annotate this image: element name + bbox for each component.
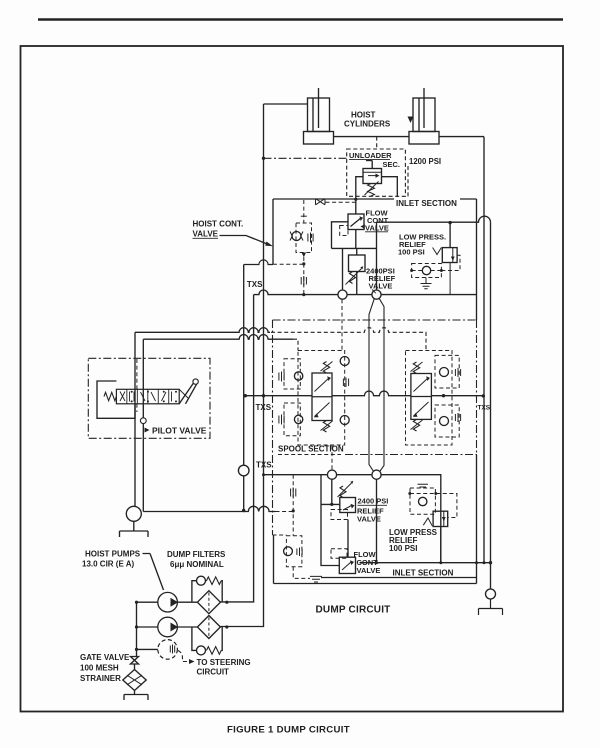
svg-text:100 MESH: 100 MESH — [80, 664, 119, 673]
spool valve 2 body — [411, 374, 432, 420]
spool 2 spring top — [413, 362, 419, 374]
steering takeoff dashed — [178, 651, 189, 662]
spool 1 sub check bottom — [294, 415, 302, 423]
wire right tank bus x490 — [490, 222, 492, 589]
wire to cylinder 1 — [264, 103, 308, 105]
dashed link circle A to spool box — [341, 299, 343, 351]
bypass spring 1 — [207, 577, 222, 585]
check circle A — [338, 290, 347, 299]
dashed link spool box to circle C — [331, 446, 333, 470]
wire work gallery y395 — [244, 395, 312, 397]
retainer on branch — [290, 489, 292, 497]
wire unloader pilot to cylinder line — [376, 137, 378, 149]
wire tank bus x243.7 — [243, 265, 245, 511]
wire cylinder base link — [334, 136, 410, 138]
wire pilot line 1 wavy — [135, 328, 270, 333]
flow valve 1 feed — [355, 199, 357, 214]
pilot valve feedback loop — [97, 381, 135, 418]
check valve dashed box bottom-left — [286, 536, 302, 567]
svg-text:13.0 CIR (E A): 13.0 CIR (E A) — [82, 560, 134, 569]
pilot tank symbol — [120, 521, 149, 537]
label INLET SECTION top — [394, 197, 460, 206]
dump box left edge — [273, 535, 275, 584]
check valve dashed box top-left — [296, 223, 312, 253]
wire pilot drain x143 — [142, 339, 144, 511]
spool 2 check circle top — [440, 368, 449, 377]
svg-text:PILOT VALVE: PILOT VALVE — [152, 426, 207, 436]
svg-text:2400 PSI: 2400 PSI — [358, 497, 389, 506]
spool 1 spring bottom — [323, 421, 329, 433]
svg-text:HOIST CONT.: HOIST CONT. — [193, 220, 244, 229]
wire cylinder 2 to right bus — [439, 136, 484, 138]
filter 2 — [197, 616, 220, 639]
spring retainer CV1 — [307, 234, 309, 242]
svg-text:DUMP FILTERS: DUMP FILTERS — [167, 550, 226, 559]
wire return gallery y474 with circles — [264, 475, 491, 563]
bypass check 2 — [197, 646, 206, 655]
unloader spring — [368, 184, 375, 197]
center line B — [379, 298, 384, 472]
svg-text:INLET SECTION: INLET SECTION — [396, 199, 457, 208]
unloader right loop — [382, 177, 398, 199]
svg-text:1200 PSI: 1200 PSI — [409, 157, 441, 166]
tank symbol branch — [310, 576, 322, 582]
svg-text:100 PSI: 100 PSI — [389, 544, 417, 553]
tank symbol low press bottom — [418, 484, 429, 487]
low press relief bottom dashed box — [410, 488, 435, 514]
spool 1 retainer bars — [342, 379, 344, 387]
svg-text:VALVE: VALVE — [369, 282, 393, 291]
svg-text:STRAINER: STRAINER — [80, 674, 121, 683]
svg-text:GATE VALVE: GATE VALVE — [80, 653, 130, 662]
relief 2 ls box dashed — [331, 510, 348, 520]
inlet section left edge — [272, 199, 274, 265]
check valve CV2 — [284, 547, 293, 556]
svg-text:100 PSI: 100 PSI — [398, 248, 425, 257]
inner gallery left x321 — [321, 475, 339, 566]
svg-text:SEC.: SEC. — [383, 160, 401, 169]
wire relief gallery y248 — [332, 247, 377, 249]
svg-text:TXS: TXS — [256, 461, 272, 470]
leader to pump 1 — [143, 554, 164, 591]
svg-text:HOIST PUMPS: HOIST PUMPS — [85, 550, 141, 559]
wire spool feed drop — [376, 479, 378, 562]
svg-text:TXS: TXS — [478, 405, 491, 412]
svg-text:CIRCUIT: CIRCUIT — [197, 668, 230, 677]
wire pilot supply x135 — [134, 332, 136, 506]
wire valve bottom to y563 — [440, 527, 442, 563]
wire flow valve 2 outlet gallery — [360, 562, 441, 564]
strainer — [134, 664, 136, 670]
unloader valve U1 — [363, 169, 382, 184]
check circle C — [327, 470, 336, 479]
check circle low press bottom — [419, 497, 427, 505]
spool 1 sub check top — [294, 372, 302, 380]
low press check circuit dashed top — [412, 264, 442, 278]
bypass check 1 — [197, 576, 206, 585]
gate valve bowtie — [131, 657, 139, 665]
tank symbol low press top — [421, 278, 432, 289]
inlet section top border — [273, 198, 477, 200]
spring retainer on drain — [300, 277, 302, 285]
strainer tank symbol — [124, 691, 148, 701]
flow valve 1 left loop — [332, 222, 349, 249]
spool 1 check circle bottom — [340, 416, 349, 425]
branch to tank dashed — [293, 567, 310, 579]
spool valve 1 body — [312, 373, 332, 421]
spool 1 sub box bottom — [284, 403, 300, 436]
spring retainer CV2 — [296, 549, 298, 556]
label PILOT VALVE — [145, 428, 150, 433]
pump 1 outlet — [177, 601, 197, 603]
bowtie link dashed — [326, 201, 356, 203]
spool 1 dashed enclosure — [298, 351, 345, 446]
spool section left border — [272, 320, 274, 535]
flow control valve 1 — [348, 214, 364, 230]
svg-text:VALVE: VALVE — [193, 230, 219, 239]
spool 1 check circle top — [340, 357, 349, 366]
spool 2 retainer bottom — [454, 414, 456, 421]
svg-text:HOIST: HOIST — [351, 111, 376, 120]
svg-text:FIGURE 1 DUMP CIRCUIT: FIGURE 1 DUMP CIRCUIT — [227, 725, 350, 736]
right tank symbol — [479, 599, 503, 615]
pilot valve internal arrows — [120, 392, 125, 402]
hoist pump 1 — [158, 592, 178, 612]
wire relief to flow valve 2 — [347, 520, 349, 558]
pump 2 outlet — [177, 626, 197, 628]
spool 2 check circle bottom — [440, 417, 449, 426]
spool section top border — [273, 319, 477, 321]
spool 1 sub retainer top — [278, 373, 280, 381]
top rule — [38, 18, 563, 21]
right tank check circle — [486, 589, 496, 599]
check valve CV1 — [292, 232, 301, 241]
spool 2 check box bottom — [435, 405, 459, 437]
filter 1 — [197, 591, 220, 614]
low press drain dashed loop top — [441, 255, 460, 270]
svg-text:CYLINDERS: CYLINDERS — [344, 120, 391, 129]
low pressure relief valve bottom — [433, 511, 448, 526]
svg-text:INLET SECTION: INLET SECTION — [393, 569, 454, 578]
svg-text:SPOOL SECTION: SPOOL SECTION — [278, 445, 344, 454]
relief valve 2400 psi top — [349, 255, 366, 272]
svg-text:TO STEERING: TO STEERING — [197, 658, 251, 667]
pilot valve lever — [179, 383, 193, 404]
valve assembly right edge — [476, 199, 478, 320]
svg-text:VALVE: VALVE — [357, 515, 381, 524]
dump box bottom border — [274, 583, 477, 585]
relief valve 2400 psi bottom — [340, 498, 356, 513]
wire work gallery y395 mid — [332, 391, 411, 396]
pilot valve dash-dot enclosure — [88, 358, 210, 438]
svg-text:6μμ NOMINAL: 6μμ NOMINAL — [170, 560, 224, 569]
wire gallery drop right — [376, 248, 378, 290]
pilot feed dashed — [136, 359, 138, 389]
low pressure relief valve top — [449, 223, 451, 248]
wire right bus x484 — [483, 137, 485, 563]
inlet2 inner bottom border — [321, 577, 477, 579]
flow control valve 2 — [339, 557, 355, 573]
wire suction gallery y511 — [143, 506, 275, 511]
wire flow valve drop — [355, 230, 357, 249]
flow arrow at cylinder 2 — [408, 117, 414, 124]
svg-text:DUMP CIRCUIT: DUMP CIRCUIT — [316, 605, 391, 616]
wire pump supply bus — [220, 295, 253, 602]
unloader dashed enclosure — [347, 149, 406, 196]
check valve circle on tank bus — [238, 465, 249, 476]
branch arrowhead — [302, 253, 307, 258]
check circle D — [372, 470, 381, 479]
flow 2 ls box dashed — [331, 549, 347, 559]
filter 2 bypass loop — [192, 627, 222, 650]
low press drain loop bottom — [436, 494, 457, 518]
svg-text:TXS: TXS — [247, 280, 263, 289]
wire low press feed y222 — [377, 216, 491, 222]
wire pilot line 2 wavy — [143, 335, 293, 340]
wire gallery drop left — [342, 248, 344, 290]
label INLET SECTION bottom — [391, 567, 457, 576]
wire pilot line 1 dashed — [271, 328, 426, 351]
spool 2 spring bottom — [413, 419, 419, 431]
hoist pump 2 — [158, 617, 178, 637]
unloader left loop — [356, 177, 363, 199]
relief adjust arrow top — [350, 272, 356, 284]
wire gallery y294 with check circles — [254, 290, 338, 295]
pilot valve spring — [104, 392, 116, 400]
spool 1 spring top — [323, 362, 329, 374]
relief adjust arrow bottom — [340, 486, 346, 498]
leader to inlet section — [220, 236, 269, 245]
wire CV1 to gallery — [303, 257, 305, 295]
pilot drain check circle — [140, 418, 146, 424]
standby pump dashed — [158, 640, 178, 660]
center line A — [369, 299, 374, 472]
wire branch y264 dashed — [273, 263, 304, 265]
check valve branch feed dashed — [303, 200, 305, 223]
pilot tank circle — [126, 506, 141, 521]
hoist cylinder 2 — [413, 98, 435, 132]
wire 1200 psi pilot line — [264, 157, 347, 159]
spool section bottom border — [345, 454, 477, 456]
wire circle C drop — [331, 479, 333, 504]
svg-text:VALVE: VALVE — [357, 566, 381, 575]
wire valve to gallery — [449, 263, 451, 295]
wire branch y264 — [244, 260, 273, 265]
svg-text:UNLOADER: UNLOADER — [349, 151, 392, 160]
spool 2 dashed enclosure — [406, 351, 453, 446]
spool 1 sub retainer bottom — [278, 416, 280, 424]
node on tank bus — [242, 509, 245, 512]
spool border drop dashed — [273, 534, 287, 536]
filter 1 bypass loop — [192, 581, 222, 603]
spool 2 check box top — [435, 355, 459, 388]
check circle B — [372, 290, 381, 299]
wire work gallery y395 right — [431, 395, 484, 397]
spool 2 retainer top — [454, 369, 456, 376]
suction manifold — [137, 602, 158, 656]
wire left main bus — [220, 104, 263, 627]
pilot valve body — [116, 389, 179, 404]
bottom check branch dashed — [292, 475, 294, 536]
shutoff bowtie on inlet border — [316, 199, 326, 205]
wire dashed 1200psi drop — [407, 166, 409, 199]
spool 1 sub box top — [284, 359, 300, 389]
bypass spring 2 — [207, 647, 222, 655]
flow valve 1 ls box dashed — [340, 226, 348, 236]
svg-text:TXS: TXS — [256, 403, 272, 412]
hoist cylinder 1 — [308, 98, 330, 132]
